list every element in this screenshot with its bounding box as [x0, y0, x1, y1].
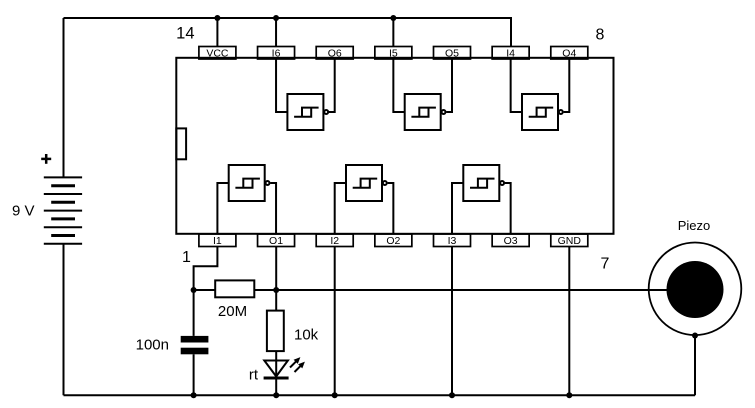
gate U1D schmitt inverter bottom row 1	[217, 165, 276, 234]
wire I6 pin to rail	[275, 18, 277, 47]
resistor R1 20M body	[215, 280, 254, 297]
svg-text:VCC: VCC	[206, 47, 229, 59]
node junction dot LED at ground rail	[273, 392, 279, 398]
wire capacitor to ground rail	[193, 354, 195, 395]
svg-text:100n: 100n	[136, 337, 169, 354]
pin box O1	[258, 234, 295, 247]
wire GND pin down to ground rail	[568, 247, 570, 395]
wire 10k to LED	[275, 351, 277, 376]
wire battery positive lead	[63, 18, 65, 177]
svg-text:20M: 20M	[218, 303, 247, 320]
wire VCC pin to rail	[216, 18, 218, 47]
node junction dot at I5 on rail	[390, 15, 396, 21]
wire I5 pin to rail	[392, 18, 394, 47]
battery BT1 9V plates	[44, 177, 82, 243]
wire 20M to O1 node and on to piezo	[254, 289, 695, 291]
svg-text:I3: I3	[448, 235, 457, 247]
wire I3 pin down to ground rail	[451, 247, 453, 395]
wire top supply rail from battery to I4	[64, 18, 512, 47]
svg-text:rt: rt	[249, 367, 259, 384]
svg-text:O5: O5	[445, 47, 459, 59]
LED emission arrow 1	[290, 357, 300, 367]
pin box I3	[434, 234, 471, 247]
svg-text:O4: O4	[562, 47, 576, 59]
wire battery negative lead to ground rail	[63, 244, 65, 395]
svg-text:O6: O6	[328, 47, 342, 59]
svg-text:10k: 10k	[294, 327, 319, 344]
battery plus sign	[41, 154, 51, 164]
wire node down to capacitor	[193, 290, 195, 336]
capacitor C1 100n plates	[181, 336, 209, 343]
svg-text:9 V: 9 V	[12, 203, 35, 220]
wire O1 pin down to 10k	[275, 247, 277, 311]
node junction dot piezo bottom	[692, 333, 698, 339]
pin box I6	[258, 47, 295, 60]
node junction dot I2 at ground rail	[332, 392, 338, 398]
wire feedback node to 20M	[194, 289, 216, 291]
LED emission arrow 2	[295, 362, 305, 372]
node junction dot at VCC on rail	[214, 15, 220, 21]
node junction dot at I6 on rail	[273, 15, 279, 21]
pin box I1	[199, 234, 236, 247]
gate U1F schmitt inverter bottom row 3	[452, 165, 511, 234]
pin box O2	[375, 234, 412, 247]
pin box I4	[492, 47, 529, 60]
svg-text:I6: I6	[272, 47, 281, 59]
op-amp IC U1 outline	[176, 58, 613, 234]
wire bottom ground rail	[64, 394, 696, 396]
pin box O6	[316, 47, 353, 60]
piezo transducer LS1 outer ring	[649, 242, 742, 335]
node junction dot RC node	[191, 287, 197, 293]
node junction dot O1 output node	[273, 287, 279, 293]
resistor R2 10k body	[267, 311, 284, 352]
svg-text:I4: I4	[506, 47, 515, 59]
pin box I5	[375, 47, 412, 60]
svg-text:O1: O1	[269, 235, 283, 247]
pin box GND	[551, 234, 588, 247]
svg-text:I1: I1	[213, 235, 222, 247]
svg-text:1: 1	[182, 249, 191, 266]
wire I1 pin to RC node	[194, 247, 218, 290]
LED D1 triangle	[264, 361, 288, 377]
svg-text:I2: I2	[330, 235, 339, 247]
pin box O5	[434, 47, 471, 60]
svg-text:O3: O3	[504, 235, 518, 247]
node junction dot GND at ground rail	[566, 392, 572, 398]
gate U1B schmitt inverter top row 2	[393, 59, 452, 131]
wire piezo to ground rail	[694, 336, 696, 396]
gate U1E schmitt inverter bottom row 2	[335, 165, 394, 234]
pin box I2	[316, 234, 353, 247]
LED cathode bar	[264, 377, 289, 380]
svg-text:Piezo: Piezo	[678, 218, 711, 233]
IC pin-1 marker notch	[176, 128, 186, 159]
node junction dot I3 at ground rail	[449, 392, 455, 398]
svg-text:O2: O2	[386, 235, 400, 247]
svg-text:14: 14	[176, 25, 194, 43]
svg-text:7: 7	[601, 256, 610, 273]
piezo inner disc	[667, 261, 724, 318]
pin box VCC	[199, 47, 236, 60]
pin box O3	[492, 234, 529, 247]
node junction dot capacitor at ground rail	[191, 392, 197, 398]
wire I2 pin down to ground rail	[334, 247, 336, 395]
pin box O4	[551, 47, 588, 60]
gate U1C schmitt inverter top row 3	[511, 59, 570, 131]
svg-text:GND: GND	[558, 235, 582, 247]
svg-text:8: 8	[596, 27, 605, 44]
wire LED to ground rail	[275, 378, 277, 395]
gate U1A schmitt inverter top row 1	[276, 59, 335, 131]
svg-text:I5: I5	[389, 47, 398, 59]
